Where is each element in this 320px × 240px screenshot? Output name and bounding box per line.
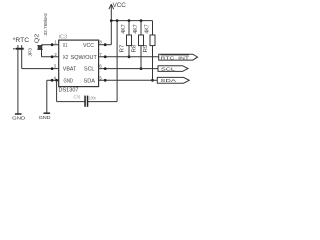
node SDA flag	[157, 77, 189, 84]
node pin1	[51, 43, 54, 46]
svg-text:32.768kHz: 32.768kHz	[43, 12, 48, 35]
svg-text:R7: R7	[120, 44, 126, 52]
resistor R8	[132, 21, 144, 69]
wire GND branch down to C76	[56, 80, 58, 101]
node pin7	[104, 55, 107, 58]
svg-text:VCC: VCC	[83, 43, 94, 49]
svg-text:RTC_INT: RTC_INT	[161, 55, 189, 61]
crystal Q2	[34, 12, 47, 49]
node pin4	[51, 79, 54, 82]
svg-text:IC3: IC3	[59, 35, 68, 41]
wire VCC branch down to C76	[116, 21, 118, 102]
capacitor C76	[74, 94, 97, 106]
svg-text:GND: GND	[39, 115, 52, 121]
svg-text:100n: 100n	[89, 95, 97, 100]
node pin8	[104, 43, 107, 46]
node R8 to SCL wire	[140, 67, 143, 70]
wire C76 right segment	[88, 101, 117, 103]
wire pin8 stub to VCC column	[99, 44, 112, 46]
node R9 to SDA wire	[151, 79, 154, 82]
wire pin5 SDA to flag	[99, 79, 158, 81]
svg-text:SCL: SCL	[161, 67, 175, 73]
resistor R9	[143, 21, 155, 81]
jumper JP3 *RTC	[13, 38, 33, 57]
ic IC3 DS1307 body	[59, 35, 99, 94]
wire pin4 GND left and down	[47, 79, 59, 81]
svg-text:SDA: SDA	[84, 78, 96, 84]
wire VCC rail	[111, 20, 152, 22]
svg-text:C76: C76	[74, 94, 81, 99]
node R7 to SQW wire	[128, 55, 131, 58]
node SCL flag	[158, 66, 188, 73]
svg-text:SQW/OUT: SQW/OUT	[71, 55, 97, 61]
node VCC rail junction R8	[140, 19, 143, 22]
wire X1 from crystal to pin1	[42, 44, 59, 46]
svg-text:Q2: Q2	[34, 34, 40, 44]
svg-text:GND: GND	[64, 78, 74, 84]
node pin3	[51, 67, 54, 70]
svg-text:VBAT: VBAT	[63, 67, 77, 73]
wire pin7 SQW/OUT to RTC_INT flag	[99, 56, 159, 58]
node C76 branch on GND wire	[55, 79, 58, 82]
node VCC rail junction R7	[128, 19, 131, 22]
svg-text:VCC: VCC	[113, 3, 127, 9]
node pin2	[51, 55, 54, 58]
node VCC rail junction at column	[110, 19, 113, 22]
svg-text:SDA: SDA	[160, 78, 177, 84]
svg-text:4K7: 4K7	[121, 24, 127, 34]
svg-text:DS1307: DS1307	[59, 88, 79, 94]
svg-text:X2: X2	[63, 55, 69, 61]
svg-text:R8: R8	[132, 44, 138, 52]
wire JP3 pin1 down to GND	[17, 45, 19, 113]
svg-text:4K7: 4K7	[133, 24, 139, 34]
svg-text:JP3: JP3	[28, 48, 33, 57]
svg-text:*RTC: *RTC	[13, 38, 30, 44]
wire VCC column down to pin 8	[110, 21, 112, 45]
node pin6	[104, 67, 107, 70]
node VCC rail junction at C76 branch	[116, 19, 119, 22]
node RTC_INT flag	[159, 54, 198, 61]
svg-text:4K7: 4K7	[144, 24, 150, 34]
svg-text:R9: R9	[143, 44, 149, 52]
svg-text:X1: X1	[63, 43, 68, 49]
ground GND1	[12, 114, 26, 122]
wire JP3 pin2 down and right to VBAT	[21, 45, 23, 68]
svg-text:GND: GND	[12, 116, 26, 122]
node pin5	[104, 79, 107, 82]
wire pin6 SCL to flag	[99, 68, 158, 70]
VCC symbol	[109, 3, 127, 20]
svg-text:SCL: SCL	[84, 67, 95, 73]
ground GND2	[39, 113, 52, 121]
resistor R7	[120, 21, 132, 57]
wire X2 from crystal to pin2	[41, 49, 43, 56]
